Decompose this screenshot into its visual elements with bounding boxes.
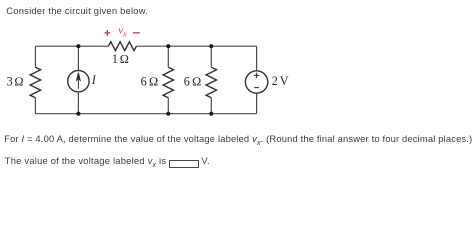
svg-text:2: 2	[272, 74, 278, 88]
wire: top rail left segment (corner to 1-ohm)	[35, 45, 108, 47]
problem statement line 2	[4, 134, 472, 147]
label: 6 ohm branch1 value	[141, 74, 159, 88]
wire: right rail upper stub	[256, 46, 258, 71]
wire: first 6-ohm branch upper stub	[167, 46, 169, 67]
svg-text:3: 3	[7, 74, 13, 88]
svg-text:6: 6	[141, 74, 147, 88]
wire: current source branch lower stub	[77, 92, 79, 114]
node: 6-ohm branch2 bottom junction	[209, 112, 213, 116]
svg-text:V: V	[280, 74, 289, 88]
voltage source 2V circle	[245, 71, 267, 93]
svg-text:Ω: Ω	[149, 74, 158, 88]
svg-text:Ω: Ω	[120, 52, 129, 66]
answer sentence with input box	[5, 156, 210, 169]
label: vx plus sign (magenta)	[104, 30, 110, 36]
svg-text:x: x	[122, 29, 127, 38]
problem statement line 1	[6, 6, 148, 15]
wire: top rail right segment (1-ohm to corner)	[136, 45, 256, 47]
resistor 6-ohm branch 2	[206, 67, 216, 98]
label: 6 ohm branch2 value	[184, 74, 202, 88]
label: 1 ohm value	[112, 52, 129, 66]
node: 6-ohm branch1 top junction	[166, 44, 170, 48]
wire: second 6-ohm branch lower stub	[210, 98, 212, 114]
voltage source plus sign	[254, 73, 259, 78]
svg-text:6: 6	[184, 74, 190, 88]
wire: bottom rail	[35, 113, 256, 115]
wire: left rail stubs around 3-ohm	[34, 46, 36, 114]
wire: first 6-ohm branch lower stub	[167, 98, 169, 114]
current source arrow (points up)	[77, 73, 81, 89]
voltage source minus sign	[254, 87, 259, 89]
label: 3 ohm value	[7, 74, 24, 88]
node: 6-ohm branch2 top junction	[209, 44, 213, 48]
wire: second 6-ohm branch upper stub	[210, 46, 212, 67]
wire: right rail lower stub	[256, 93, 258, 114]
label: current source name I	[91, 73, 97, 87]
svg-text:I: I	[91, 73, 97, 87]
current source I circle	[68, 71, 89, 92]
svg-text:Ω: Ω	[192, 74, 201, 88]
node: 6-ohm branch1 bottom junction	[166, 112, 170, 116]
svg-text:1: 1	[112, 52, 118, 66]
resistor 3-ohm in left rail	[30, 67, 40, 98]
resistor 1-ohm in top rail	[109, 42, 137, 51]
node: current source top junction	[76, 44, 80, 48]
label: 2 V value	[272, 74, 289, 88]
resistor 6-ohm branch 1	[163, 67, 173, 98]
wire: current source branch upper stub	[77, 46, 79, 70]
circuit schematic drawing	[0, 0, 474, 176]
label: vx minus sign (magenta)	[133, 32, 140, 34]
label: vx voltage name (magenta italic v with subscript x)	[118, 24, 127, 38]
svg-text:Ω: Ω	[14, 74, 23, 88]
node: current source bottom junction	[76, 112, 80, 116]
